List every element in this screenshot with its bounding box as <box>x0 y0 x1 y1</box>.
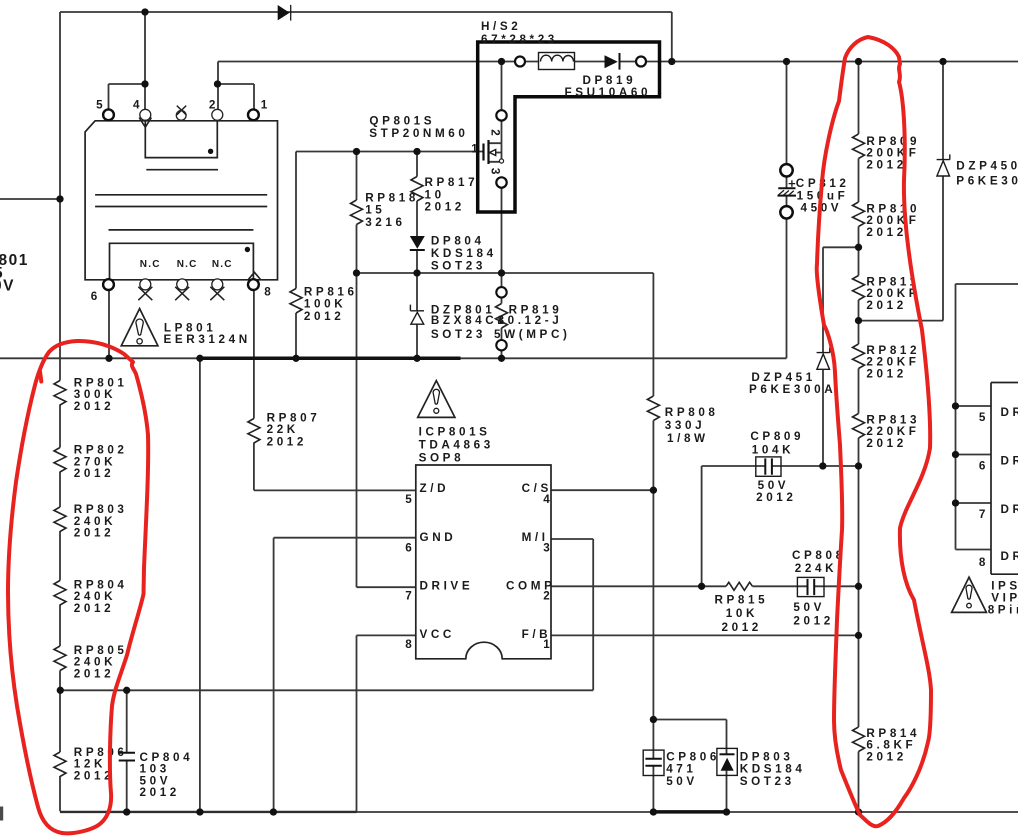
svg-text:CP809: CP809 <box>750 430 804 443</box>
svg-text:2012: 2012 <box>793 614 833 627</box>
svg-text:DRIVE: DRIVE <box>420 579 474 592</box>
svg-text:DRAIN: DRAIN <box>1001 550 1018 563</box>
svg-text:EER3124N: EER3124N <box>164 333 251 346</box>
svg-text:RP817: RP817 <box>425 176 479 189</box>
svg-text:FSU10A60: FSU10A60 <box>565 86 652 99</box>
svg-text:10K: 10K <box>726 607 758 620</box>
svg-text:2012: 2012 <box>866 437 906 450</box>
svg-text:80.12-J: 80.12-J <box>498 314 563 327</box>
svg-text:5W(MPC): 5W(MPC) <box>494 328 571 341</box>
svg-text:2012: 2012 <box>304 310 344 323</box>
svg-text:6: 6 <box>91 290 101 303</box>
svg-text:BZX84C1: BZX84C1 <box>431 314 508 327</box>
svg-text:100K: 100K <box>304 298 346 311</box>
svg-text:50V: 50V <box>666 775 698 788</box>
svg-text:471: 471 <box>666 763 696 776</box>
svg-text:10: 10 <box>425 188 445 201</box>
svg-text:8: 8 <box>405 638 415 651</box>
svg-text:224K: 224K <box>795 562 837 575</box>
svg-text:2012: 2012 <box>866 368 906 381</box>
svg-text:1: 1 <box>471 143 481 156</box>
svg-text:SOT23: SOT23 <box>740 775 795 788</box>
svg-text:6: 6 <box>979 459 989 472</box>
svg-text:SOT23: SOT23 <box>431 328 486 341</box>
svg-text:RP815: RP815 <box>715 593 769 606</box>
svg-text:CP806: CP806 <box>666 750 720 763</box>
svg-text:3216: 3216 <box>365 216 405 229</box>
svg-text:2: 2 <box>209 98 219 111</box>
svg-text:SOT23: SOT23 <box>431 259 486 272</box>
svg-text:ICP801S: ICP801S <box>419 425 491 438</box>
svg-text:5: 5 <box>96 98 106 111</box>
svg-text:2: 2 <box>489 129 502 139</box>
svg-text:1: 1 <box>543 638 553 651</box>
svg-text:22K: 22K <box>267 423 299 436</box>
svg-text:7: 7 <box>405 590 415 603</box>
svg-text:KDS184: KDS184 <box>740 763 806 776</box>
svg-text:2012: 2012 <box>74 467 114 480</box>
svg-text:2012: 2012 <box>140 786 180 799</box>
svg-text:67*28*23: 67*28*23 <box>481 33 558 46</box>
svg-text:2012: 2012 <box>866 159 906 172</box>
svg-text:330J: 330J <box>665 419 705 432</box>
svg-text:50V: 50V <box>793 601 825 614</box>
svg-text:TDA4863: TDA4863 <box>419 439 494 452</box>
svg-text:15: 15 <box>365 204 385 217</box>
svg-text:DRAIN: DRAIN <box>1001 406 1018 419</box>
svg-text:4: 4 <box>543 493 553 506</box>
svg-text:STP20NM60: STP20NM60 <box>369 127 468 140</box>
svg-text:2012: 2012 <box>425 201 465 214</box>
svg-text:P6KE300A: P6KE300A <box>956 174 1018 187</box>
svg-text:3: 3 <box>489 168 502 178</box>
svg-text:6: 6 <box>405 542 415 555</box>
svg-text:2012: 2012 <box>74 527 114 540</box>
svg-text:RP808: RP808 <box>665 406 719 419</box>
svg-text:KDS184: KDS184 <box>431 247 497 260</box>
svg-text:DP804: DP804 <box>431 235 485 248</box>
svg-text:VCC: VCC <box>420 628 455 641</box>
svg-text:QP801S: QP801S <box>369 115 435 128</box>
svg-text:0V: 0V <box>0 278 15 295</box>
svg-text:2012: 2012 <box>74 400 114 413</box>
svg-text:7: 7 <box>979 508 989 521</box>
svg-text:N.C: N.C <box>140 259 161 270</box>
svg-text:SOP8: SOP8 <box>419 452 465 465</box>
svg-text:1/8W: 1/8W <box>667 432 709 445</box>
svg-text:1: 1 <box>261 98 271 111</box>
svg-text:RP816: RP816 <box>304 285 358 298</box>
svg-text:RP818: RP818 <box>365 191 419 204</box>
svg-text:2012: 2012 <box>74 602 114 615</box>
svg-text:Z/D: Z/D <box>420 482 450 495</box>
svg-text:2012: 2012 <box>866 299 906 312</box>
svg-text:2012: 2012 <box>866 226 906 239</box>
svg-text:5: 5 <box>405 493 415 506</box>
svg-text:2012: 2012 <box>267 435 307 448</box>
svg-text:4: 4 <box>133 98 143 111</box>
svg-text:P6KE300A: P6KE300A <box>749 383 836 396</box>
svg-text:5: 5 <box>979 411 989 424</box>
svg-text:104K: 104K <box>752 443 794 456</box>
svg-text:8Pin: 8Pin <box>988 604 1018 617</box>
svg-text:DRAIN: DRAIN <box>1001 454 1018 467</box>
svg-text:GND: GND <box>420 531 457 544</box>
svg-text:H/S2: H/S2 <box>481 20 521 33</box>
svg-text:2: 2 <box>543 590 553 603</box>
svg-text:DRAIN: DRAIN <box>1001 503 1018 516</box>
svg-text:2012: 2012 <box>722 621 762 634</box>
svg-text:DZP450: DZP450 <box>956 159 1018 172</box>
svg-text:3: 3 <box>543 542 553 555</box>
svg-text:8: 8 <box>264 285 274 298</box>
svg-text:DP803: DP803 <box>740 750 794 763</box>
svg-text:2012: 2012 <box>866 751 906 764</box>
svg-text:8: 8 <box>979 556 989 569</box>
svg-text:N.C: N.C <box>212 259 233 270</box>
svg-text:N.C: N.C <box>177 259 198 270</box>
svg-text:2012: 2012 <box>74 668 114 681</box>
svg-text:CP808: CP808 <box>792 549 846 562</box>
svg-text:DP819: DP819 <box>583 74 637 87</box>
svg-text:801: 801 <box>0 252 29 269</box>
svg-text:2012: 2012 <box>756 491 796 504</box>
